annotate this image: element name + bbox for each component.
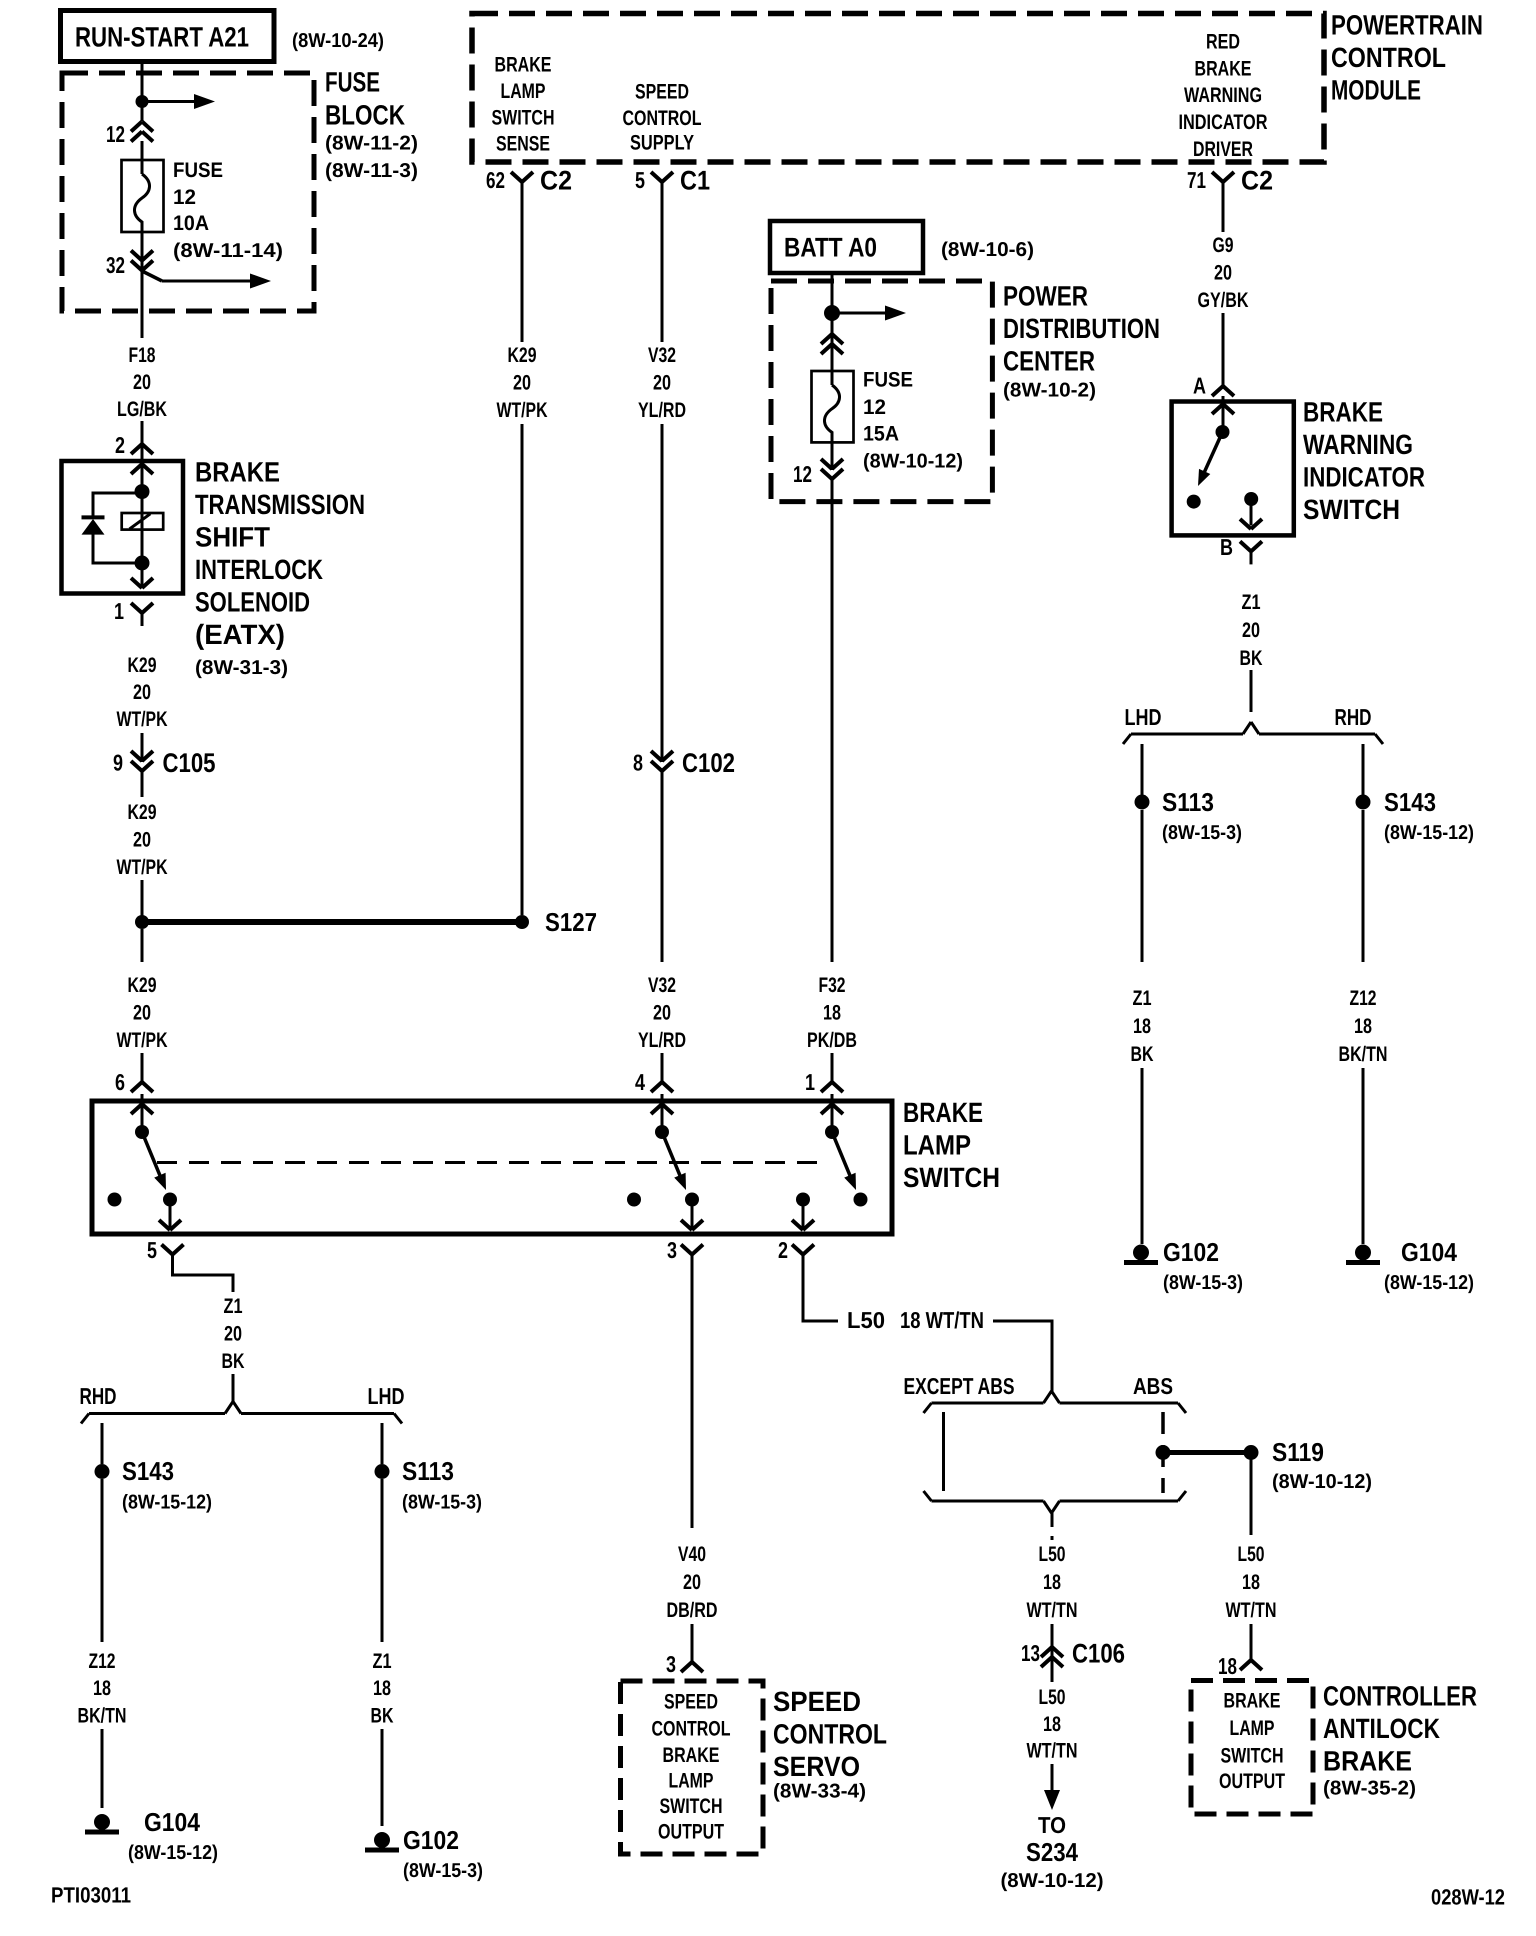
svg-text:20: 20 (653, 1002, 671, 1025)
svg-text:INDICATOR: INDICATOR (1179, 111, 1268, 134)
label RHD (1335, 704, 1372, 730)
svg-text:C102: C102 (682, 748, 735, 778)
wire L50 from pin 2 (802, 1262, 839, 1321)
svg-text:SOLENOID: SOLENOID (195, 587, 310, 618)
fuse F12 label (173, 159, 283, 262)
splice S119 (1156, 1437, 1373, 1493)
connector C105 pin 9 (113, 748, 216, 778)
label LHD (bottom) (368, 1383, 405, 1409)
except-ABS branch wire (942, 1412, 945, 1491)
svg-text:SENSE: SENSE (496, 133, 550, 156)
svg-text:13: 13 (1021, 1640, 1040, 1666)
switch 1 input chevron (131, 1094, 153, 1132)
fuse F12 15A (812, 369, 854, 444)
LHD/RHD option bracket (1123, 722, 1383, 744)
switch 3 input chevron (821, 1094, 843, 1132)
svg-text:(8W-11-3): (8W-11-3) (325, 160, 418, 182)
wire Z1 18 BK to G102 (1141, 810, 1144, 1244)
ground G104 (right) (1346, 1237, 1474, 1294)
LHD branch wire (1141, 744, 1144, 795)
wire label V40 20 DB/RD (667, 1543, 718, 1622)
switch 1 pivot (135, 1125, 149, 1139)
wire V32 from PCM pin 5 (661, 194, 664, 762)
pin 4 of brake lamp switch (635, 1069, 673, 1095)
svg-text:WT/TN: WT/TN (1226, 1599, 1277, 1622)
svg-text:SPEED: SPEED (773, 1686, 861, 1717)
svg-text:6: 6 (115, 1069, 125, 1095)
svg-text:(EATX): (EATX) (195, 619, 285, 650)
svg-text:(8W-10-12): (8W-10-12) (1001, 1870, 1104, 1892)
connector C106 pin 13 (1021, 1638, 1125, 1668)
wire Z1 from pin 5 (171, 1262, 233, 1292)
svg-text:(8W-10-6): (8W-10-6) (941, 239, 1034, 261)
svg-text:K29: K29 (128, 974, 157, 997)
wire to LHD/RHD bracket (1250, 670, 1253, 712)
wire label Z12 18 BK/TN (bottom) (78, 1650, 127, 1728)
switch 2 contact (685, 1193, 699, 1207)
pin 2 of brake lamp switch (778, 1237, 814, 1268)
svg-text:18 WT/TN: 18 WT/TN (900, 1307, 984, 1333)
PCM speed control supply label (623, 81, 702, 155)
ABS branch wire (dashed) (1161, 1412, 1165, 1493)
wire S127 to brake lamp switch pin 6 (141, 929, 144, 1076)
BWI switch contact left (1187, 495, 1201, 509)
svg-text:Z1: Z1 (1133, 987, 1152, 1010)
svg-text:(8W-31-3): (8W-31-3) (195, 657, 288, 679)
pin 2 of BTSI solenoid (115, 431, 153, 458)
wire below bracket (dashed) (1051, 1513, 1054, 1540)
node RUN-START A21 feed box (61, 11, 275, 62)
switch 2 output chevron (681, 1206, 703, 1230)
svg-text:3: 3 (666, 1651, 676, 1677)
svg-text:20: 20 (133, 681, 151, 704)
svg-text:20: 20 (683, 1571, 701, 1594)
brake lamp switch label (903, 1097, 1000, 1193)
fuse block (dashed) (62, 73, 314, 311)
pin 3 of brake lamp switch (667, 1237, 703, 1268)
switch 2 spare contact (627, 1193, 641, 1207)
svg-text:OUTPUT: OUTPUT (1219, 1770, 1285, 1793)
wire label K29 20 WT/PK (PCM side) (497, 344, 548, 422)
svg-text:LAMP: LAMP (903, 1130, 971, 1161)
BWI switch label (1303, 397, 1425, 525)
svg-text:(8W-15-3): (8W-15-3) (1162, 822, 1242, 844)
svg-text:Z1: Z1 (1242, 591, 1261, 614)
wire from RUN-START A21 into fuse block (141, 61, 144, 121)
pin 1 of brake lamp switch (805, 1069, 843, 1095)
svg-text:1: 1 (805, 1069, 815, 1095)
ground G102 (bottom) (365, 1825, 483, 1882)
wire label Z1 20 BK (pin B) (1240, 591, 1263, 670)
svg-text:20: 20 (133, 829, 151, 852)
brake lamp switch box (92, 1101, 892, 1234)
svg-text:CENTER: CENTER (1003, 346, 1095, 377)
wire G9 from PCM pin 71 (1222, 194, 1225, 373)
splice S113 (right) (1135, 787, 1243, 844)
svg-text:Z1: Z1 (224, 1295, 243, 1318)
wire F32 out of PDC (831, 479, 834, 1076)
svg-text:WT/PK: WT/PK (497, 399, 548, 422)
wire label V32 20 YL/RD upper (638, 344, 686, 422)
bracket closing (bottom) (924, 1491, 1187, 1513)
label ABS (1133, 1373, 1173, 1399)
svg-text:20: 20 (653, 372, 671, 395)
svg-text:GY/BK: GY/BK (1198, 289, 1249, 312)
wire to coil (141, 444, 144, 563)
PDC label (1003, 280, 1160, 401)
svg-text:BRAKE: BRAKE (195, 457, 280, 488)
svg-text:18: 18 (1242, 1571, 1260, 1594)
wire V40 from pin 3 (691, 1262, 694, 1528)
junction lower (135, 556, 150, 571)
svg-text:LG/BK: LG/BK (117, 398, 167, 421)
wire label V32 20 YL/RD lower (638, 974, 686, 1052)
EXCEPT ABS / ABS option bracket (924, 1391, 1187, 1413)
svg-text:K29: K29 (128, 801, 157, 824)
svg-text:LHD: LHD (1125, 704, 1162, 730)
svg-text:S127: S127 (545, 907, 597, 937)
svg-text:WARNING: WARNING (1303, 429, 1413, 460)
svg-text:K29: K29 (128, 654, 157, 677)
svg-text:A: A (1193, 372, 1206, 398)
svg-text:3: 3 (667, 1237, 677, 1263)
servo internal label (652, 1691, 731, 1844)
svg-text:20: 20 (1242, 619, 1260, 642)
wire below C105 (141, 771, 144, 797)
svg-text:RHD: RHD (1335, 704, 1372, 730)
pin 62 connector C2 (486, 165, 572, 195)
svg-text:BK: BK (1131, 1043, 1154, 1066)
pin 18 of controller antilock brake (1218, 1647, 1262, 1679)
svg-text:WT/PK: WT/PK (117, 708, 168, 731)
svg-text:TO: TO (1038, 1812, 1066, 1838)
pin 71 connector C2 (1187, 165, 1273, 195)
svg-text:028W-12: 028W-12 (1431, 1885, 1505, 1910)
svg-text:20: 20 (224, 1323, 242, 1346)
svg-text:OUTPUT: OUTPUT (658, 1821, 724, 1844)
svg-text:12: 12 (863, 396, 886, 419)
wire below C102 (661, 771, 664, 1076)
svg-text:V32: V32 (648, 974, 676, 997)
arrow feed in PDC (832, 306, 906, 321)
switch 3 arm (832, 1132, 856, 1190)
svg-text:S113: S113 (402, 1456, 454, 1486)
reference 8W-10-6 (941, 239, 1034, 261)
svg-text:10A: 10A (173, 212, 209, 235)
wire F18 out of fuse block (141, 272, 144, 338)
switch 1 output chevron (159, 1206, 181, 1230)
svg-text:Z1: Z1 (373, 1650, 392, 1673)
svg-text:L50: L50 (1039, 1686, 1066, 1709)
svg-text:BLOCK: BLOCK (325, 100, 405, 131)
svg-text:71: 71 (1187, 167, 1206, 193)
wire label F18 20 LG/BK (117, 344, 167, 421)
svg-text:BK/TN: BK/TN (1339, 1043, 1388, 1066)
PCM label (1331, 10, 1483, 106)
wire Z12 18 BK/TN to G104 (bottom) (101, 1479, 104, 1808)
brake warning indicator switch box (1172, 402, 1294, 536)
svg-text:C106: C106 (1072, 1638, 1125, 1668)
svg-text:18: 18 (1043, 1713, 1061, 1736)
svg-text:WT/TN: WT/TN (1027, 1599, 1078, 1622)
svg-text:F18: F18 (129, 344, 156, 367)
wire to S234 arrow (1044, 1764, 1060, 1810)
solenoid input chevron (131, 464, 153, 474)
svg-text:FUSE: FUSE (325, 67, 380, 98)
svg-text:(8W-35-2): (8W-35-2) (1323, 1777, 1416, 1799)
junction (136, 95, 149, 108)
svg-text:C2: C2 (540, 165, 572, 195)
wire K29 from PCM to S127 (521, 194, 524, 915)
svg-text:BK: BK (222, 1350, 245, 1373)
svg-text:INTERLOCK: INTERLOCK (195, 554, 323, 585)
svg-text:G102: G102 (1163, 1237, 1219, 1267)
wire to splice S127 (141, 880, 144, 922)
CAB internal label (1219, 1690, 1285, 1794)
wire label L50 18 WT/TN (to S234) (1027, 1686, 1078, 1763)
wire label Z12 18 BK/TN (right) (1339, 987, 1388, 1066)
svg-text:WT/PK: WT/PK (117, 856, 168, 879)
ground G102 (right) (1124, 1237, 1243, 1294)
svg-text:ANTILOCK: ANTILOCK (1323, 1713, 1440, 1744)
arrow feed to other circuits (142, 94, 215, 109)
switch 1 spare contact (108, 1193, 122, 1207)
svg-text:20: 20 (513, 372, 531, 395)
wire label G9 20 GY/BK (1198, 234, 1249, 312)
pin 6 of brake lamp switch (115, 1069, 153, 1095)
CAB label (1323, 1681, 1477, 1800)
speed control servo box (dashed) (621, 1681, 764, 1854)
fuse F12 10A (122, 158, 164, 234)
svg-text:C105: C105 (163, 748, 216, 778)
svg-text:9: 9 (113, 750, 123, 776)
svg-text:SUPPLY: SUPPLY (630, 132, 694, 155)
switch 3 output contact (796, 1193, 810, 1207)
svg-text:BRAKE: BRAKE (1195, 58, 1252, 81)
ground G104 (bottom) (85, 1807, 218, 1864)
svg-text:YL/RD: YL/RD (638, 399, 686, 422)
svg-text:5: 5 (635, 167, 645, 193)
svg-text:(8W-15-12): (8W-15-12) (1384, 822, 1474, 844)
label RHD (bottom) (80, 1383, 117, 1409)
wire label L50 18 WT/TN (except ABS) (1027, 1543, 1078, 1622)
svg-text:FUSE: FUSE (173, 159, 223, 182)
svg-text:S234: S234 (1026, 1837, 1078, 1867)
svg-text:CONTROLLER: CONTROLLER (1323, 1681, 1477, 1712)
wire Z1 18 BK to G102 (bottom) (381, 1479, 384, 1826)
svg-text:SWITCH: SWITCH (492, 107, 555, 130)
svg-text:LAMP: LAMP (1230, 1717, 1275, 1740)
svg-text:G102: G102 (403, 1825, 459, 1855)
svg-text:(8W-33-4): (8W-33-4) (773, 1780, 866, 1802)
svg-text:INDICATOR: INDICATOR (1303, 462, 1425, 493)
wire label K29 20 WT/PK (to switch) (117, 974, 168, 1052)
switch gang dashed line (157, 1161, 827, 1164)
svg-text:20: 20 (1214, 262, 1232, 285)
svg-text:BRAKE: BRAKE (903, 1097, 983, 1128)
diode D1 (82, 517, 143, 564)
svg-text:SHIFT: SHIFT (195, 522, 270, 553)
svg-text:20: 20 (133, 371, 151, 394)
BWI input chevron (1212, 396, 1234, 432)
relay coil L1 (122, 513, 164, 530)
svg-text:TRANSMISSION: TRANSMISSION (195, 489, 365, 520)
svg-text:S143: S143 (1384, 787, 1436, 817)
pin 12 of PDC (793, 442, 843, 487)
wire L50 to ABS bracket (993, 1320, 1052, 1395)
svg-text:BRAKE: BRAKE (663, 1744, 720, 1767)
PDC connector chevrons (821, 334, 843, 354)
wire Z12 18 BK/TN to G104 (1362, 810, 1365, 1244)
RHD branch wire (bottom) (101, 1423, 104, 1464)
svg-text:18: 18 (373, 1677, 391, 1700)
wire label K29 20 WT/PK lower (117, 801, 168, 879)
svg-text:SWITCH: SWITCH (903, 1162, 1000, 1193)
PCM brake lamp switch sense label (492, 54, 555, 156)
svg-text:LAMP: LAMP (669, 1770, 714, 1793)
svg-text:(8W-10-2): (8W-10-2) (1003, 379, 1096, 401)
svg-text:BK: BK (371, 1705, 394, 1728)
svg-text:L50: L50 (1238, 1543, 1265, 1566)
svg-text:DISTRIBUTION: DISTRIBUTION (1003, 313, 1160, 344)
switch 3 pivot (825, 1125, 839, 1139)
svg-text:C2: C2 (1241, 165, 1273, 195)
svg-text:BATT A0: BATT A0 (784, 232, 877, 262)
BWI switch contact right (1240, 492, 1262, 529)
pin 5 connector C1 (635, 165, 710, 195)
switch 2 input chevron (651, 1094, 673, 1132)
svg-text:2: 2 (778, 1237, 788, 1263)
svg-text:CONTROL: CONTROL (773, 1719, 887, 1750)
svg-text:CONTROL: CONTROL (652, 1718, 731, 1741)
svg-text:5: 5 (147, 1237, 157, 1263)
svg-text:15A: 15A (863, 423, 899, 446)
wire label F32 18 PK/DB (807, 974, 857, 1052)
wire to solenoid pin 2 (141, 421, 144, 431)
svg-text:SPEED: SPEED (664, 1691, 718, 1714)
svg-text:SWITCH: SWITCH (660, 1795, 723, 1818)
switch 3 contact (854, 1193, 868, 1207)
svg-text:(8W-15-3): (8W-15-3) (402, 1491, 482, 1513)
svg-text:DB/RD: DB/RD (667, 1599, 718, 1622)
RHD/LHD option bracket (bottom) (81, 1402, 402, 1424)
svg-text:20: 20 (133, 1002, 151, 1025)
junction in PDC (824, 305, 840, 321)
svg-text:2: 2 (115, 432, 125, 458)
svg-text:LHD: LHD (368, 1383, 405, 1409)
wire to bottom bracket (232, 1374, 235, 1402)
svg-text:18: 18 (93, 1677, 111, 1700)
svg-text:SWITCH: SWITCH (1303, 494, 1400, 525)
wire to C106 (1051, 1624, 1054, 1666)
svg-text:WT/TN: WT/TN (1027, 1740, 1078, 1763)
fuse F12 15A label (863, 369, 963, 473)
svg-text:(8W-10-12): (8W-10-12) (863, 451, 963, 473)
svg-text:WT/PK: WT/PK (117, 1029, 168, 1052)
fuse block label (325, 67, 418, 182)
svg-text:DRIVER: DRIVER (1193, 138, 1253, 161)
svg-text:18: 18 (1133, 1015, 1151, 1038)
pin 32 connector (106, 232, 153, 278)
svg-text:(8W-15-12): (8W-15-12) (1384, 1272, 1474, 1294)
pin 12 connector (106, 121, 153, 147)
svg-text:18: 18 (823, 1002, 841, 1025)
svg-text:B: B (1220, 534, 1233, 560)
BWI switch pivot (1216, 425, 1230, 439)
svg-text:(8W-15-12): (8W-15-12) (128, 1842, 218, 1864)
svg-text:4: 4 (635, 1069, 645, 1095)
svg-text:BK/TN: BK/TN (78, 1705, 127, 1728)
splice S143 (right) (1356, 787, 1475, 844)
connector C102 pin 8 (633, 748, 735, 778)
wire label Z1 18 BK (bottom) (371, 1650, 394, 1728)
wire label L50 18 WT/TN (ABS) (1226, 1543, 1277, 1622)
footer PTI03011 (51, 1883, 131, 1908)
wire L50 from S119 (1250, 1459, 1253, 1535)
svg-text:(8W-15-3): (8W-15-3) (1163, 1272, 1243, 1294)
pin A of brake warning indicator switch (1193, 372, 1234, 398)
svg-text:C1: C1 (680, 165, 710, 195)
svg-text:YL/RD: YL/RD (638, 1029, 686, 1052)
svg-text:32: 32 (106, 252, 125, 278)
wire label K29 20 WT/PK upper (117, 654, 168, 731)
wire label Z1 20 BK (pin 5) (222, 1295, 245, 1373)
svg-text:S113: S113 (1162, 787, 1214, 817)
svg-text:L50: L50 (847, 1307, 885, 1333)
wire label L50 18 WT/TN (inline) (847, 1307, 984, 1333)
svg-text:G104: G104 (144, 1807, 200, 1837)
wire pin12 to fuse (141, 141, 144, 161)
PCM red brake warning indicator driver label (1179, 31, 1268, 161)
switch 2 pivot (655, 1125, 669, 1139)
svg-text:PK/DB: PK/DB (807, 1029, 857, 1052)
svg-text:RED: RED (1206, 31, 1240, 54)
pin 3 of speed control servo (666, 1649, 703, 1677)
svg-text:(8W-11-2): (8W-11-2) (325, 132, 418, 154)
svg-text:62: 62 (486, 167, 505, 193)
splice S113 (bottom) (375, 1456, 483, 1514)
wire to servo (691, 1624, 694, 1649)
pin B of brake warning indicator switch (1220, 534, 1262, 565)
svg-text:WARNING: WARNING (1184, 84, 1262, 107)
svg-text:S143: S143 (122, 1456, 174, 1486)
svg-text:MODULE: MODULE (1331, 75, 1421, 106)
svg-text:BRAKE: BRAKE (495, 54, 552, 77)
label LHD (1125, 704, 1162, 730)
svg-text:G104: G104 (1401, 1237, 1457, 1267)
svg-text:V32: V32 (648, 344, 676, 367)
svg-text:(8W-15-3): (8W-15-3) (403, 1860, 483, 1882)
label TO S234 (1001, 1812, 1104, 1892)
servo label (773, 1686, 887, 1802)
reference 8W-10-24 (292, 30, 384, 52)
splice S143 (bottom) (95, 1456, 213, 1514)
diode branch wire (93, 492, 142, 520)
svg-text:18: 18 (1043, 1571, 1061, 1594)
svg-text:12: 12 (793, 461, 812, 487)
svg-text:SWITCH: SWITCH (1221, 1745, 1284, 1768)
svg-text:18: 18 (1354, 1015, 1372, 1038)
switch 1 contact (163, 1193, 177, 1207)
svg-text:RHD: RHD (80, 1383, 117, 1409)
splice S127 (135, 907, 597, 937)
svg-text:(8W-10-12): (8W-10-12) (1272, 1471, 1372, 1493)
switch 1 arm (142, 1132, 166, 1190)
junction upper (135, 484, 150, 499)
svg-text:K29: K29 (508, 344, 537, 367)
svg-text:POWER: POWER (1003, 280, 1088, 311)
pin 1 of BTSI solenoid (114, 598, 153, 626)
